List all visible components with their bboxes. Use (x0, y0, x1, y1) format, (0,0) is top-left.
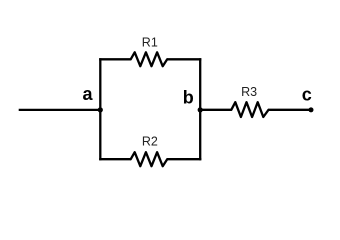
wire: left vertical of parallel branch (99, 58, 101, 160)
node c label (302, 84, 312, 104)
wire: bottom-left lead to R2 (99, 158, 131, 160)
R2 value label (142, 135, 158, 149)
R1 value label (142, 35, 158, 49)
wire: top-left lead to R1 (99, 58, 131, 60)
wire: R3 to node c (269, 109, 312, 111)
svg-text:a: a (82, 84, 93, 104)
resistor R2 (131, 152, 168, 166)
wire: left lead into node a (19, 109, 101, 111)
resistor R3 (231, 102, 268, 117)
node a label (82, 84, 93, 104)
svg-text:R3: R3 (241, 85, 257, 99)
svg-text:R2: R2 (142, 135, 158, 149)
resistor R1 (131, 52, 168, 66)
svg-text:R1: R1 (142, 35, 158, 49)
node c terminal dot (309, 107, 314, 112)
wire: bottom-right lead from R2 to right vertical (167, 158, 201, 160)
wire: top-right lead from R1 to right vertical (167, 58, 201, 60)
node b label (183, 87, 194, 107)
svg-text:b: b (183, 87, 194, 107)
node b junction dot (198, 107, 203, 112)
R3 value label (241, 85, 257, 99)
svg-text:c: c (302, 84, 312, 104)
node a junction dot (98, 107, 103, 112)
wire: right vertical of parallel branch (199, 58, 201, 160)
wire: node b lead to R3 (200, 109, 231, 111)
